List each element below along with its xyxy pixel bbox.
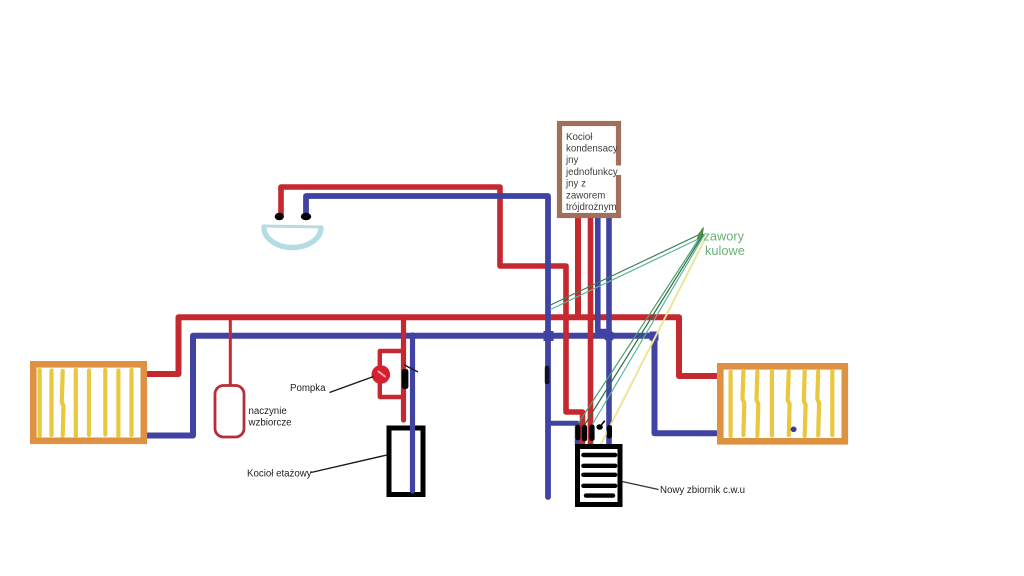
- wire: blue pipe 2 from condensing boiler to tank valve D: [606, 218, 612, 444]
- green pointer line to valve C and dot: [592, 235, 705, 426]
- svg-text:wzbiorcze: wzbiorcze: [248, 418, 292, 429]
- kociol etazowy box: [389, 428, 423, 495]
- node: blue junction at right manifold corner: [650, 332, 659, 341]
- wire: blue drop into kociol etazowy: [410, 335, 415, 491]
- asterisk dot near valves: [596, 424, 602, 430]
- svg-text:trójdrożnym: trójdrożnym: [566, 202, 617, 213]
- wire: red pipe 2 from condensing boiler to tank valve C: [588, 218, 594, 445]
- node: blue junction at main blue and long blue: [544, 331, 554, 341]
- sink bowl: [264, 227, 321, 248]
- wire: main blue horizontal manifold: [193, 336, 716, 436]
- wire: thin red drop to expansion vessel: [229, 318, 232, 385]
- pointer line to kociol etazowy: [311, 455, 387, 473]
- green pointer line long to blue pipe (double): [550, 233, 703, 306]
- radiator right: [720, 366, 845, 441]
- yellow pointer line to valve D: [601, 238, 706, 444]
- radiator right fins: [731, 371, 833, 436]
- wire: blue through kociol etazowy: [410, 426, 415, 491]
- green arrowhead near zawory text: [698, 227, 705, 237]
- green pointer line to valve A: [579, 234, 703, 424]
- wire: red pump riser from main red: [401, 317, 406, 420]
- svg-text:jny: jny: [565, 155, 579, 166]
- svg-text:kulowe: kulowe: [705, 243, 745, 258]
- pointer line to pump: [330, 377, 374, 393]
- notch on right border of boiler box: [616, 166, 624, 176]
- svg-text:Kocioł etażowy: Kocioł etażowy: [247, 468, 312, 479]
- ball valve C above tank: [589, 425, 594, 442]
- svg-text:jny z: jny z: [565, 179, 586, 190]
- green pointer line to valve B: [585, 234, 704, 425]
- pump bypass loop: [380, 351, 404, 397]
- sink tap dot left: [275, 213, 284, 221]
- sink top chord: [263, 226, 322, 227]
- svg-text:zawory: zawory: [704, 228, 745, 243]
- node: small blue dot in right radiator: [791, 427, 797, 433]
- radiator left: [33, 364, 144, 441]
- tank coil bars: [583, 455, 615, 496]
- wire: main red horizontal manifold: [179, 317, 717, 376]
- ball valve D above tank: [607, 425, 612, 439]
- ball valve A above tank: [575, 425, 580, 441]
- svg-text:jednofunkcy: jednofunkcy: [565, 167, 618, 178]
- svg-text:kondensacy: kondensacy: [566, 144, 618, 155]
- wire: blue return from left radiator: [145, 433, 193, 439]
- tank (Nowy zbiornik c.w.u): [578, 447, 621, 505]
- svg-text:naczynie: naczynie: [249, 406, 287, 417]
- wire: blue return from sink, long vertical: [306, 196, 548, 497]
- valve black on pump riser: [402, 369, 409, 389]
- sink tap dot right: [301, 213, 311, 221]
- ball valve B above tank: [582, 425, 587, 442]
- wire: red feed into left radiator: [145, 371, 179, 377]
- wire: red pipe 1 from condensing boiler to main red: [575, 218, 581, 320]
- wire: blue pipe 1 from condensing boiler with jog: [598, 218, 609, 332]
- node: blue junction at blue pipe 2 crossing: [605, 332, 614, 341]
- expansion vessel (naczynie wzbiorcze): [215, 386, 244, 438]
- svg-text:zaworem: zaworem: [566, 190, 605, 201]
- condensing boiler box: [560, 124, 619, 216]
- short tick line at black valve: [404, 365, 418, 372]
- radiator left fins: [40, 370, 132, 436]
- pump highlight: [379, 372, 386, 377]
- wire: red supply from sink to boiler drop: [281, 187, 583, 445]
- svg-text:Pompka: Pompka: [290, 383, 326, 394]
- valve dark on long blue pipe: [545, 366, 550, 385]
- pointer line to tank: [622, 482, 659, 490]
- pump circle (Pompka): [372, 365, 391, 384]
- svg-text:Kocioł: Kocioł: [566, 132, 593, 143]
- svg-text:Nowy zbiornik c.w.u: Nowy zbiornik c.w.u: [660, 485, 745, 496]
- wire: blue branch to tank valve A: [548, 423, 577, 445]
